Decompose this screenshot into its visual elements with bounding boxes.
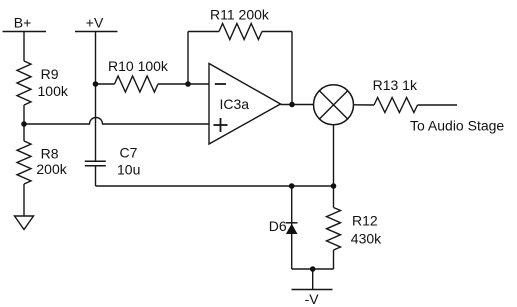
svg-text:R12: R12 [352, 213, 378, 229]
svg-text:R10 100k: R10 100k [108, 58, 169, 74]
svg-text:B+: B+ [14, 14, 32, 30]
svg-text:430k: 430k [351, 231, 382, 247]
svg-text:200k: 200k [36, 161, 67, 177]
svg-text:R11 200k: R11 200k [210, 7, 270, 23]
svg-text:R13 1k: R13 1k [373, 77, 418, 93]
svg-text:IC3a: IC3a [220, 96, 250, 112]
svg-text:D6: D6 [269, 218, 287, 234]
svg-text:R9: R9 [41, 66, 59, 82]
svg-text:10u: 10u [117, 162, 140, 178]
svg-text:+V: +V [86, 14, 104, 30]
svg-text:To Audio Stage: To Audio Stage [410, 117, 504, 133]
svg-text:-V: -V [305, 291, 320, 307]
svg-text:R8: R8 [41, 146, 59, 162]
svg-text:C7: C7 [120, 145, 138, 161]
svg-text:100k: 100k [38, 83, 69, 99]
